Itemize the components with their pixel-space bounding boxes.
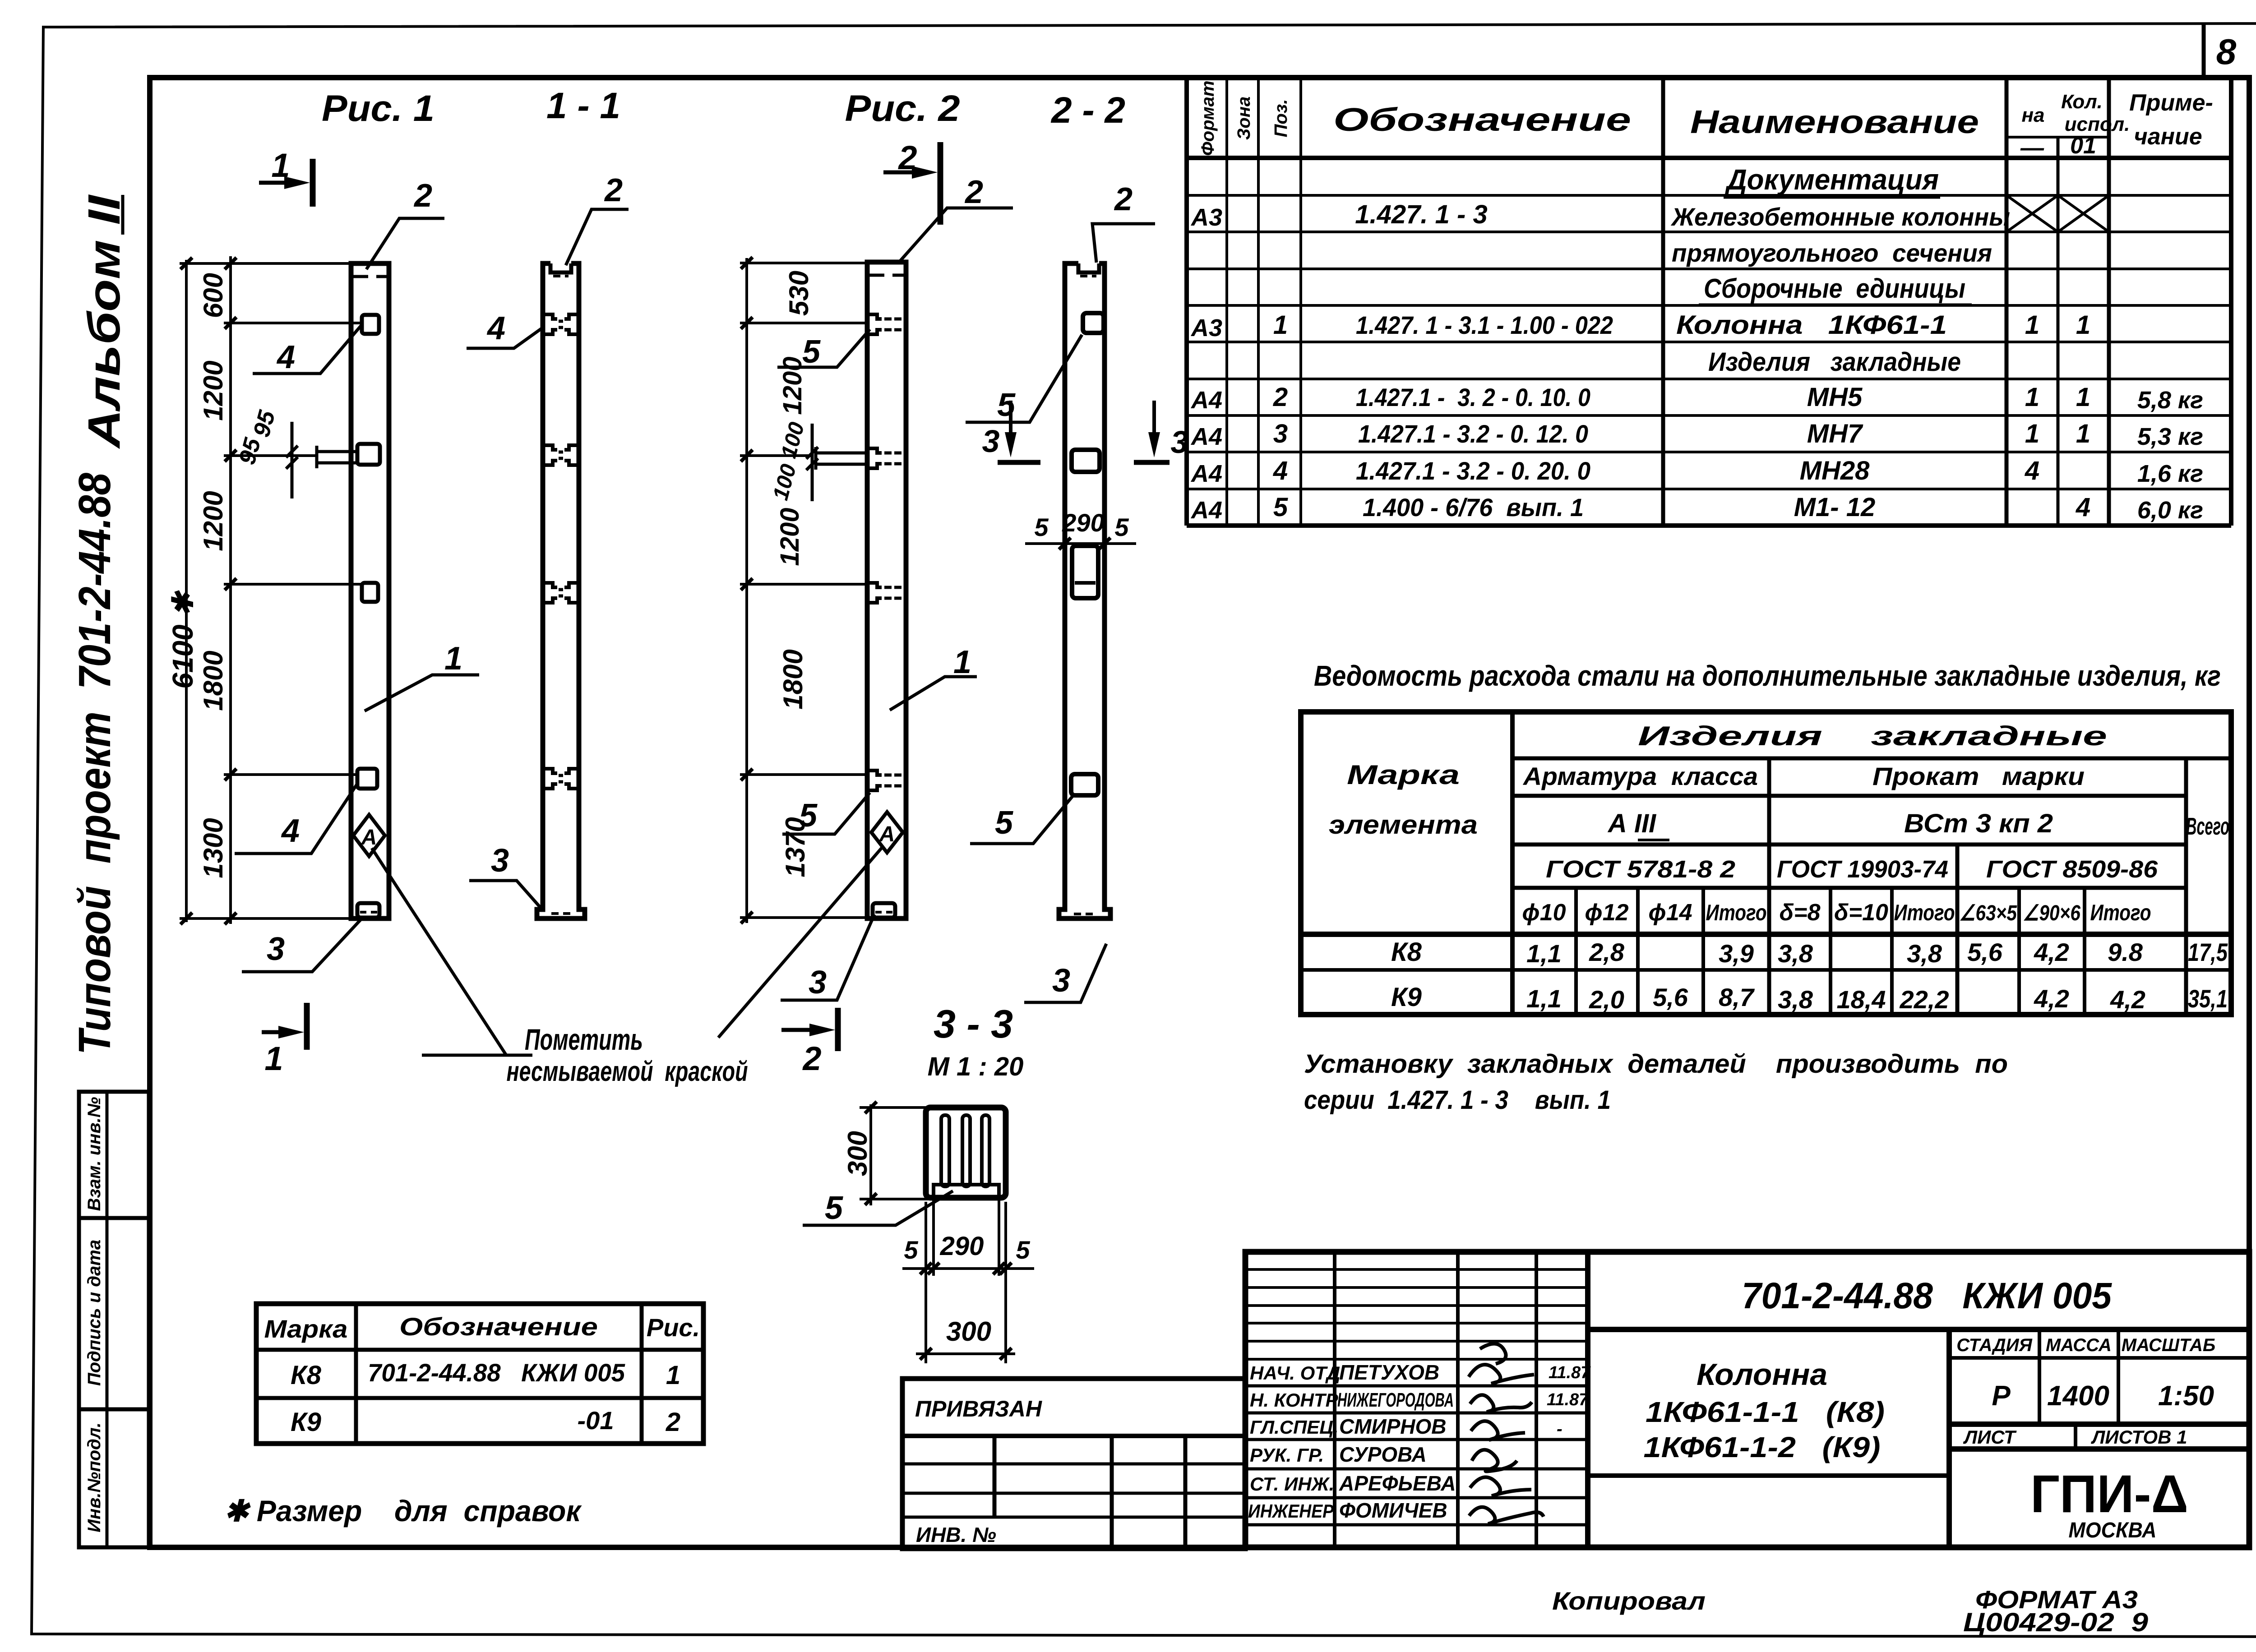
svg-text:прямоугольного сечения: прямоугольного сечения xyxy=(1672,239,1992,267)
svg-text:Копировал: Копировал xyxy=(1552,1587,1706,1615)
svg-text:СМИРНОВ: СМИРНОВ xyxy=(1339,1415,1447,1438)
svg-text:Арматура класса: Арматура класса xyxy=(1522,762,1758,790)
svg-text:3: 3 xyxy=(809,964,827,1001)
fig1 column body xyxy=(351,263,389,918)
svg-text:5,3 кг: 5,3 кг xyxy=(2137,423,2203,450)
crosses in count cells xyxy=(2006,195,2109,232)
svg-text:5: 5 xyxy=(997,387,1016,423)
svg-text:1,1: 1,1 xyxy=(1526,984,1562,1013)
svg-text:К8: К8 xyxy=(1391,937,1422,967)
svg-text:3 - 3: 3 - 3 xyxy=(934,1001,1013,1046)
svg-text:2: 2 xyxy=(897,139,917,176)
svg-text:ГОСТ 19903-74: ГОСТ 19903-74 xyxy=(1777,856,1948,883)
svg-text:2: 2 xyxy=(964,174,983,210)
svg-text:1: 1 xyxy=(2076,419,2090,448)
svg-text:5: 5 xyxy=(799,798,818,834)
svg-text:1: 1 xyxy=(2025,310,2039,340)
fig1 embedded plate pos.4 level1 xyxy=(362,315,379,334)
svg-text:δ=8: δ=8 xyxy=(1779,900,1820,926)
sec1-1 column outline with notch and foot xyxy=(537,263,585,918)
sec2-2 column outline with notch and foot xyxy=(1059,263,1110,918)
svg-text:МН28: МН28 xyxy=(1800,456,1870,485)
svg-text:2: 2 xyxy=(802,1040,821,1077)
svg-text:5: 5 xyxy=(802,334,821,370)
cut symbol 2 (top) xyxy=(883,142,940,225)
svg-text:300: 300 xyxy=(842,1131,873,1176)
fig1 embedded plate pos.4 level2 xyxy=(357,444,380,465)
svg-text:ПЕТУХОВ: ПЕТУХОВ xyxy=(1339,1361,1439,1384)
svg-text:Колонна 1КФ61-1: Колонна 1КФ61-1 xyxy=(1676,310,1947,340)
svg-text:АРЕФЬЕВА: АРЕФЬЕВА xyxy=(1339,1472,1456,1495)
svg-text:3,8: 3,8 xyxy=(1778,985,1813,1014)
svg-text:Инв.№подл.: Инв.№подл. xyxy=(84,1422,104,1532)
svg-text:Формат: Формат xyxy=(1198,81,1218,156)
svg-text:3,8: 3,8 xyxy=(1778,939,1813,968)
svg-text:1: 1 xyxy=(271,147,290,184)
svg-text:1: 1 xyxy=(2076,383,2090,412)
svg-text:1.427.1 - 3.2 - 0. 20. 0: 1.427.1 - 3.2 - 0. 20. 0 xyxy=(1356,457,1590,485)
svg-text:1800: 1800 xyxy=(198,651,228,711)
svg-text:М1- 12: М1- 12 xyxy=(1794,493,1876,522)
svg-text:2: 2 xyxy=(1114,181,1133,217)
cut symbol 3 (left of sec2-2) xyxy=(1009,401,1012,450)
svg-text:1: 1 xyxy=(1273,310,1288,340)
svg-text:1200: 1200 xyxy=(198,360,228,420)
svg-text:300: 300 xyxy=(946,1316,991,1347)
signatures (squiggles) xyxy=(1469,1344,1544,1524)
svg-text:К9: К9 xyxy=(1391,983,1422,1012)
svg-text:290: 290 xyxy=(940,1232,984,1261)
svg-text:4: 4 xyxy=(281,813,300,849)
svg-text:ВСт 3 кп 2: ВСт 3 кп 2 xyxy=(1904,809,2053,838)
svg-text:1,6 кг: 1,6 кг xyxy=(2137,460,2203,487)
fig2 column body xyxy=(867,262,906,918)
fig1 embedded plate pos.4 level4 xyxy=(357,769,377,789)
svg-text:НАЧ. ОТД: НАЧ. ОТД xyxy=(1250,1362,1340,1384)
fig2 side tabs with hidden dashes xyxy=(867,314,882,790)
svg-text:1КФ61-1-2 (К9): 1КФ61-1-2 (К9) xyxy=(1644,1431,1881,1463)
svg-text:1: 1 xyxy=(953,644,971,680)
svg-text:Сборочные единицы: Сборочные единицы xyxy=(1704,273,1965,304)
svg-text:4: 4 xyxy=(2025,456,2039,485)
svg-text:Обозначение: Обозначение xyxy=(399,1312,598,1341)
fig1 dim ticks xyxy=(180,258,236,924)
svg-text:серии 1.427. 1 - 3 вып. 1: серии 1.427. 1 - 3 вып. 1 xyxy=(1304,1085,1611,1115)
svg-text:35,1: 35,1 xyxy=(2188,984,2228,1013)
svg-text:4,2: 4,2 xyxy=(2110,985,2145,1014)
svg-text:2,0: 2,0 xyxy=(1589,985,1624,1014)
svg-text:4: 4 xyxy=(486,310,505,346)
svg-text:МОСКВА: МОСКВА xyxy=(2069,1518,2157,1542)
svg-text:ПРИВЯЗАН: ПРИВЯЗАН xyxy=(915,1396,1042,1421)
sec3-3 anchor slots xyxy=(934,1115,999,1197)
svg-text:4,2: 4,2 xyxy=(2034,938,2069,966)
svg-text:-01: -01 xyxy=(578,1406,614,1435)
svg-text:2: 2 xyxy=(1273,383,1288,412)
svg-text:17,5: 17,5 xyxy=(2188,938,2228,966)
svg-text:Прокат марки: Прокат марки xyxy=(1872,762,2085,790)
spec table grid xyxy=(1187,78,2231,526)
svg-text:3: 3 xyxy=(1171,425,1188,460)
svg-text:3: 3 xyxy=(1273,419,1288,448)
svg-text:Наименование: Наименование xyxy=(1690,104,1979,140)
svg-text:1.427.1 - 3. 2 - 0. 10. 0: 1.427.1 - 3. 2 - 0. 10. 0 xyxy=(1356,383,1590,411)
fig2 anchor bolts level2 xyxy=(806,424,867,501)
svg-text:несмываемой краской: несмываемой краской xyxy=(507,1056,748,1087)
svg-text:М 1 : 20: М 1 : 20 xyxy=(928,1052,1024,1081)
svg-text:на: на xyxy=(2021,104,2044,126)
svg-text:МН7: МН7 xyxy=(1807,419,1863,448)
svg-text:01: 01 xyxy=(2070,133,2096,159)
svg-text:3,9: 3,9 xyxy=(1719,939,1754,968)
fig2 dimension chain line xyxy=(740,258,874,923)
svg-text:5: 5 xyxy=(1273,493,1288,522)
svg-text:1: 1 xyxy=(444,641,462,677)
svg-text:6100 ✱: 6100 ✱ xyxy=(166,590,199,689)
svg-text:Обозначение: Обозначение xyxy=(1333,102,1631,138)
svg-text:А III: А III xyxy=(1607,809,1657,838)
svg-text:ϕ10: ϕ10 xyxy=(1522,900,1566,926)
svg-text:8: 8 xyxy=(2216,32,2237,72)
sec2-2 embedded plate level1 xyxy=(1083,313,1104,333)
callout leader from fig1 diamond xyxy=(372,848,532,1055)
svg-text:К9: К9 xyxy=(291,1407,321,1437)
svg-text:2: 2 xyxy=(413,178,432,214)
svg-text:Зона: Зона xyxy=(1234,97,1254,140)
svg-text:4,2: 4,2 xyxy=(2034,984,2069,1013)
svg-text:А4: А4 xyxy=(1190,460,1222,487)
svg-text:∠90×6: ∠90×6 xyxy=(2023,901,2080,925)
svg-text:5: 5 xyxy=(904,1236,918,1264)
svg-text:ФОМИЧЕВ: ФОМИЧЕВ xyxy=(1339,1499,1447,1522)
svg-text:1.427. 1 - 3.1 - 1.00 - 022: 1.427. 1 - 3.1 - 1.00 - 022 xyxy=(1356,311,1613,339)
sec2-2 embedded plate level3 (tall) xyxy=(1072,546,1098,598)
callout leader from fig2 diamond xyxy=(718,846,883,1038)
svg-text:ЛИСТ: ЛИСТ xyxy=(1963,1426,2017,1448)
svg-text:Ведомость расхода стали на доп: Ведомость расхода стали на дополнительны… xyxy=(1314,660,2221,692)
sec3-3 plate outline xyxy=(926,1107,1006,1198)
sec3-3 vertical dim 300 xyxy=(860,1102,929,1205)
svg-text:5,6: 5,6 xyxy=(1967,938,2003,966)
svg-text:1800: 1800 xyxy=(778,649,808,709)
fig2 foot plate pos.3 xyxy=(873,903,895,918)
svg-text:Н. КОНТР: Н. КОНТР xyxy=(1250,1389,1339,1411)
svg-text:11.87: 11.87 xyxy=(1549,1363,1591,1382)
svg-text:δ=10: δ=10 xyxy=(1834,900,1888,926)
svg-text:5: 5 xyxy=(995,805,1013,841)
svg-text:Марка: Марка xyxy=(264,1315,348,1343)
svg-text:Железобетонные колонны: Железобетонные колонны xyxy=(1670,203,2010,231)
svg-text:1200: 1200 xyxy=(775,508,804,566)
fig1 embedded plate level3 xyxy=(362,583,378,602)
cut symbol 2 (bottom) xyxy=(781,1008,838,1051)
svg-text:ϕ12: ϕ12 xyxy=(1585,900,1628,926)
sec3-3 overall dim 300 xyxy=(916,1348,1015,1360)
svg-text:1200: 1200 xyxy=(198,491,228,551)
svg-text:А4: А4 xyxy=(1190,497,1222,524)
svg-text:701-2-44.88 КЖИ 005: 701-2-44.88 КЖИ 005 xyxy=(368,1358,625,1387)
svg-text:1: 1 xyxy=(2076,310,2090,340)
svg-text:Пометить: Пометить xyxy=(525,1023,643,1056)
svg-text:МАСШТАБ: МАСШТАБ xyxy=(2122,1335,2215,1355)
vedomost table grid xyxy=(1301,712,2231,1015)
svg-text:Рис. 1: Рис. 1 xyxy=(322,88,435,129)
svg-text:✱ Размер для справок: ✱ Размер для справок xyxy=(224,1494,582,1527)
svg-text:4: 4 xyxy=(2076,493,2090,522)
svg-text:1.400 - 6/76 вып. 1: 1.400 - 6/76 вып. 1 xyxy=(1363,493,1584,521)
left stamp column xyxy=(79,1092,149,1547)
svg-text:1.427. 1 - 3: 1.427. 1 - 3 xyxy=(1355,200,1487,229)
svg-text:СТ. ИНЖ.: СТ. ИНЖ. xyxy=(1250,1473,1334,1495)
svg-text:Итого: Итого xyxy=(2090,900,2151,925)
svg-text:1: 1 xyxy=(2025,419,2039,448)
svg-text:5: 5 xyxy=(1034,513,1049,541)
svg-text:2 - 2: 2 - 2 xyxy=(1050,90,1125,131)
svg-text:К8: К8 xyxy=(291,1361,322,1390)
svg-text:СУРОВА: СУРОВА xyxy=(1339,1443,1427,1466)
svg-text:5,6: 5,6 xyxy=(1653,983,1688,1011)
svg-text:1:50: 1:50 xyxy=(2158,1380,2214,1412)
svg-text:МН5: МН5 xyxy=(1807,383,1863,412)
svg-text:1: 1 xyxy=(264,1040,283,1077)
svg-text:2: 2 xyxy=(666,1407,680,1437)
svg-text:Рис. 2: Рис. 2 xyxy=(845,88,960,129)
svg-text:Изделия закладные: Изделия закладные xyxy=(1638,721,2107,751)
sec2-2 width dim 5|290|5 xyxy=(1025,538,1136,549)
svg-text:Поз.: Поз. xyxy=(1271,99,1291,138)
svg-text:А3: А3 xyxy=(1190,314,1222,341)
svg-text:Колонна: Колонна xyxy=(1697,1357,1827,1392)
sec2-2 embedded plate level4 xyxy=(1071,774,1098,795)
svg-text:∠63×5: ∠63×5 xyxy=(1959,901,2017,925)
svg-text:А4: А4 xyxy=(1190,423,1222,450)
svg-text:Всего: Всего xyxy=(2186,813,2229,840)
svg-text:8,7: 8,7 xyxy=(1719,983,1755,1011)
svg-text:НИЖЕГОРОДОВА: НИЖЕГОРОДОВА xyxy=(1337,1389,1454,1411)
fig2 top plate dashed line xyxy=(869,274,904,277)
svg-text:Подпись и дата: Подпись и дата xyxy=(84,1240,104,1386)
svg-text:Ц00429-02 9: Ц00429-02 9 xyxy=(1963,1608,2148,1637)
svg-text:6,0 кг: 6,0 кг xyxy=(2137,497,2203,524)
svg-text:1КФ61-1-1 (К8): 1КФ61-1-1 (К8) xyxy=(1646,1396,1885,1428)
svg-text:1400: 1400 xyxy=(2047,1380,2109,1412)
svg-text:2,8: 2,8 xyxy=(1589,938,1625,966)
svg-text:Установку закладных деталей: Установку закладных деталей производить … xyxy=(1304,1049,2008,1079)
svg-text:ЛИСТОВ 1: ЛИСТОВ 1 xyxy=(2091,1426,2187,1448)
svg-text:ИНВ. №: ИНВ. № xyxy=(916,1523,996,1546)
svg-text:ГОСТ 5781-8 2: ГОСТ 5781-8 2 xyxy=(1546,856,1735,883)
svg-text:3,8: 3,8 xyxy=(1907,939,1942,968)
cut symbol 1 (top) xyxy=(259,159,313,207)
svg-text:Кол.: Кол. xyxy=(2061,91,2103,113)
svg-text:СТАДИЯ: СТАДИЯ xyxy=(1956,1335,2032,1355)
fig1 anchor bolts level2 xyxy=(286,422,357,498)
svg-text:Р: Р xyxy=(1992,1380,2011,1412)
svg-text:ГОСТ 8509-86: ГОСТ 8509-86 xyxy=(1986,856,2158,883)
svg-text:А: А xyxy=(361,826,377,849)
svg-text:Взам. инв.№: Взам. инв.№ xyxy=(84,1097,104,1211)
svg-text:1 - 1: 1 - 1 xyxy=(546,85,620,126)
svg-text:11.87: 11.87 xyxy=(1547,1390,1589,1409)
svg-text:1: 1 xyxy=(2025,383,2039,412)
sec2-2 embedded plate level2 xyxy=(1072,450,1100,472)
fig1 dimension lines xyxy=(180,256,364,924)
svg-text:Типовой проект 701-2-44.88: Типовой проект 701-2-44.88 xyxy=(69,473,120,1055)
svg-text:Изделия закладные: Изделия закладные xyxy=(1708,347,1961,377)
svg-text:1.427.1 - 3.2 - 0. 12. 0: 1.427.1 - 3.2 - 0. 12. 0 xyxy=(1358,420,1588,448)
svg-text:22,2: 22,2 xyxy=(1900,985,1949,1014)
svg-text:3: 3 xyxy=(982,424,1000,459)
svg-text:530: 530 xyxy=(784,271,814,316)
svg-text:Марка: Марка xyxy=(1347,760,1460,790)
svg-text:испол.: испол. xyxy=(2065,113,2130,135)
svg-text:701-2-44.88 КЖИ 005: 701-2-44.88 КЖИ 005 xyxy=(1742,1275,2112,1316)
fig2 mark diamond A xyxy=(871,812,903,853)
svg-text:3: 3 xyxy=(491,843,509,879)
fig1 mark diamond A xyxy=(353,815,385,856)
svg-text:ГЛ.СПЕЦ.: ГЛ.СПЕЦ. xyxy=(1250,1417,1339,1438)
svg-text:1: 1 xyxy=(666,1361,680,1390)
svg-text:А: А xyxy=(879,822,895,846)
svg-text:Приме-: Приме- xyxy=(2129,90,2213,116)
fig1 top plate dashed line xyxy=(353,275,387,278)
sec3-3 bottom dim 5|290|5 xyxy=(902,1200,1034,1363)
svg-text:3: 3 xyxy=(1052,963,1070,999)
svg-text:4: 4 xyxy=(276,339,295,375)
svg-text:ГПИ-Δ: ГПИ-Δ xyxy=(2030,1464,2188,1524)
svg-text:А3: А3 xyxy=(1190,204,1222,231)
underline of roman II in Альбом xyxy=(121,195,125,235)
svg-text:ϕ14: ϕ14 xyxy=(1648,900,1692,926)
svg-text:5: 5 xyxy=(1114,513,1129,541)
svg-text:Документация: Документация xyxy=(1724,163,1939,196)
svg-text:А4: А4 xyxy=(1190,387,1222,414)
svg-text:9.8: 9.8 xyxy=(2108,938,2143,966)
svg-text:290: 290 xyxy=(1062,508,1104,537)
svg-text:ИНЖЕНЕР: ИНЖЕНЕР xyxy=(1248,1500,1334,1522)
svg-text:3: 3 xyxy=(267,931,285,967)
svg-text:Итого: Итого xyxy=(1894,900,1955,925)
sheet number box xyxy=(2204,25,2249,78)
svg-text:-: - xyxy=(1557,1420,1563,1439)
svg-text:5,8 кг: 5,8 кг xyxy=(2137,387,2203,414)
svg-text:600: 600 xyxy=(198,273,228,318)
svg-text:РУК. ГР.: РУК. ГР. xyxy=(1250,1444,1324,1466)
privyazan table xyxy=(902,1379,1245,1549)
svg-text:5: 5 xyxy=(825,1190,843,1226)
svg-text:Рис.: Рис. xyxy=(647,1313,700,1342)
svg-text:1,1: 1,1 xyxy=(1526,939,1562,968)
svg-text:5: 5 xyxy=(1016,1236,1030,1264)
svg-text:элемента: элемента xyxy=(1329,810,1478,840)
svg-text:18,4: 18,4 xyxy=(1837,985,1886,1014)
fig1 foot plate pos.3 xyxy=(357,903,379,918)
svg-text:—: — xyxy=(2020,135,2044,161)
fig2 dim ticks xyxy=(741,257,753,923)
svg-text:1300: 1300 xyxy=(198,818,228,878)
svg-text:4: 4 xyxy=(1273,456,1288,485)
svg-text:2: 2 xyxy=(604,172,623,208)
svg-text:МАССА: МАССА xyxy=(2046,1335,2112,1355)
sec1-1 side tabs (embedded plates in section) xyxy=(543,314,579,789)
cut symbol 3 (right of sec2-2) xyxy=(1152,401,1156,450)
svg-text:чание: чание xyxy=(2134,124,2202,150)
title block main grid xyxy=(1245,1252,2249,1547)
cut symbol 1 (bottom) xyxy=(262,1003,307,1050)
svg-text:Итого: Итого xyxy=(1706,900,1767,925)
